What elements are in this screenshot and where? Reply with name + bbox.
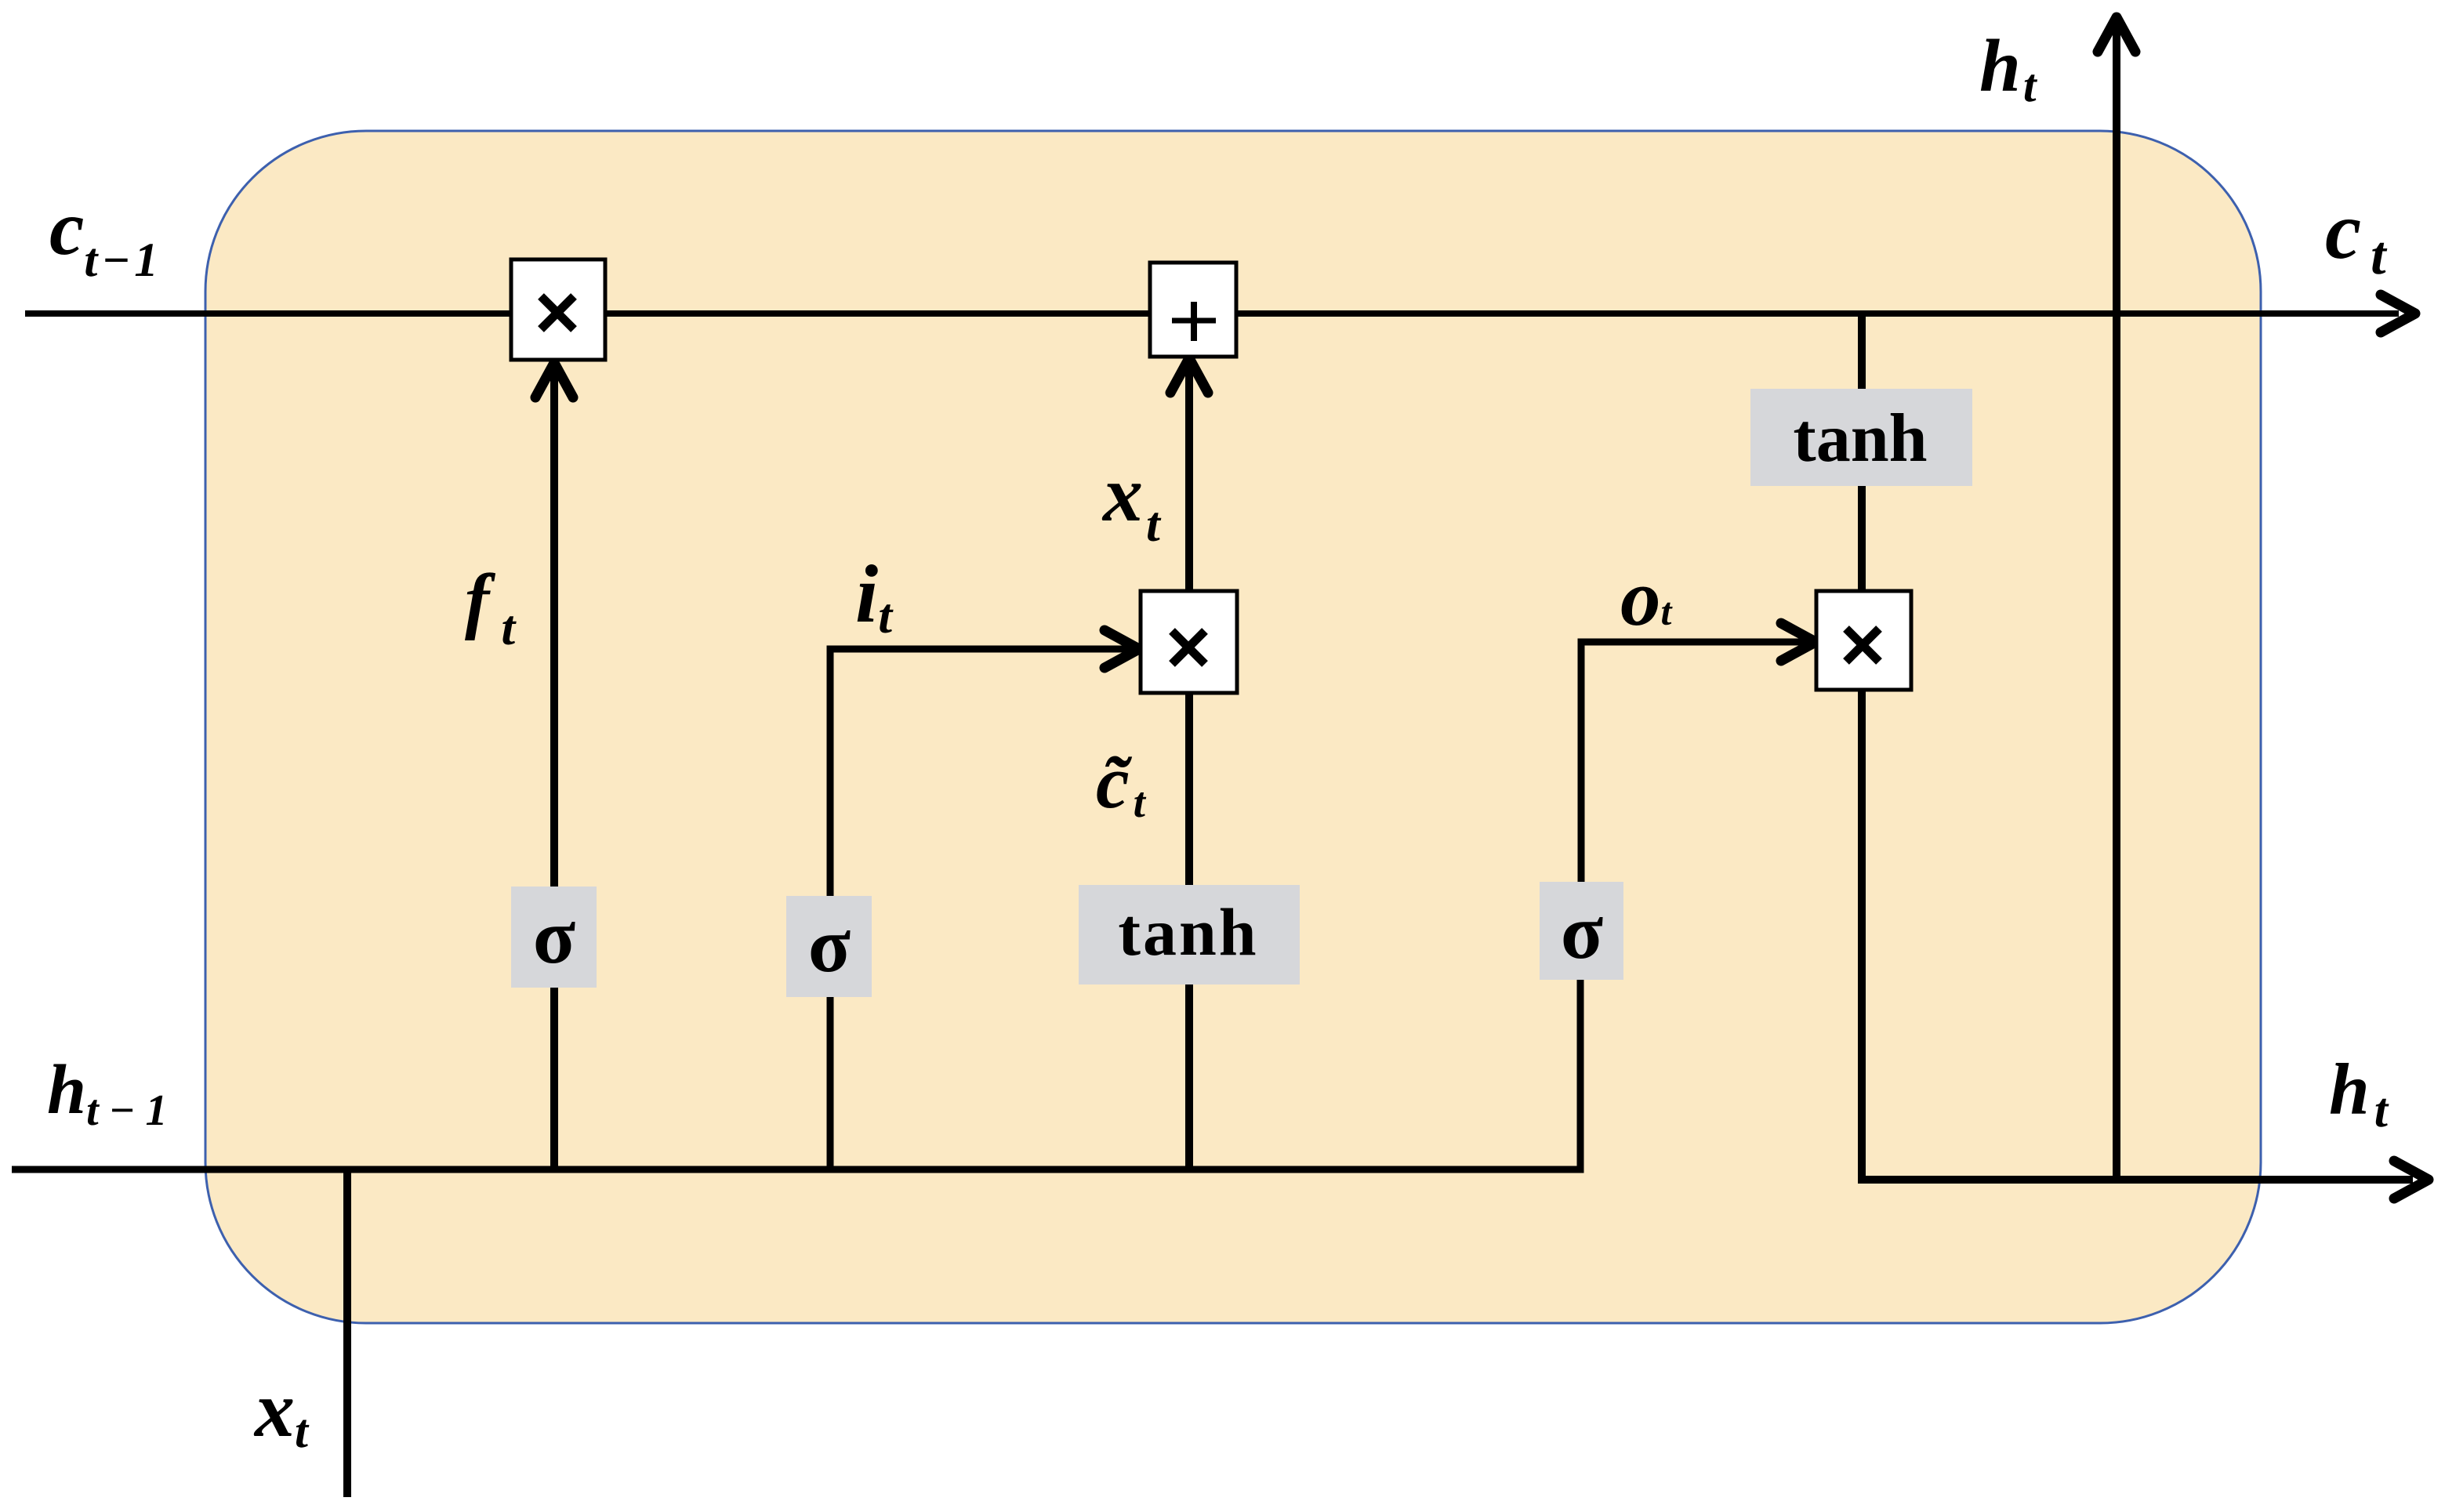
svg-text:σ: σ	[1561, 888, 1603, 975]
svg-text:tanh: tanh	[1793, 401, 1927, 477]
svg-text:σ: σ	[808, 901, 851, 988]
svg-text:tanh: tanh	[1118, 894, 1258, 970]
svg-text:σ: σ	[533, 893, 575, 980]
